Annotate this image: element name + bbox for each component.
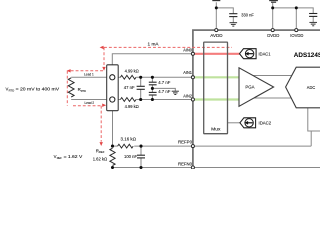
wire lead1 RTD to terminal (71, 76, 107, 78)
svg-text:ADS124S08: ADS124S08 (294, 52, 320, 59)
resistor R1 4.99k zigzag (120, 75, 136, 79)
svg-text:IDAC1: IDAC1 (259, 52, 271, 57)
svg-text:RTD: RTD (9, 88, 15, 92)
wire AIN0 net: AIN0 pin left then down to terminal pin 1 (112, 54, 191, 75)
junction dot IOVDD rail (295, 6, 298, 9)
svg-text:IOVDD: IOVDD (290, 33, 303, 38)
wire C4 100nF leads (140, 146, 142, 155)
resistor R3 3.16k zigzag (118, 144, 134, 148)
svg-text:DVDD: DVDD (267, 33, 279, 38)
pin AIN1 (191, 76, 194, 79)
svg-text:AVDD: AVDD (210, 33, 222, 38)
junction dot AVDD rail (215, 6, 218, 9)
pin IOVDD (295, 29, 298, 32)
junction dot Rref top (111, 145, 114, 148)
wire ADC output down (308, 108, 320, 131)
wire internal to REFP0 (310, 131, 312, 146)
red dashed loop around RTD leads (67, 71, 104, 106)
wire R2 to AIN2 pin (136, 99, 191, 101)
svg-text:REF: REF (99, 150, 105, 154)
svg-text:AIN0: AIN0 (183, 48, 192, 53)
junction dot C4 bottom (139, 166, 142, 169)
capacitor C2 4.7nF plates (149, 82, 157, 85)
wire PGA output to ADC (top) (246, 75, 294, 77)
svg-text:1 mA: 1 mA (148, 42, 159, 47)
wire lead2 RTD to terminal (71, 99, 107, 101)
pin AIN0 (191, 52, 194, 55)
wire terminal pin1 to R1 (115, 76, 120, 78)
ground symbol mid filter (172, 91, 179, 94)
supply rail cut marks top DVDD (269, 1, 278, 3)
red dashed current path 1 mA from IDAC1 (104, 47, 232, 67)
red arrow down to Rref (100, 142, 103, 146)
ground symbol below C6 (309, 22, 317, 25)
junction dot Rref bottom (111, 166, 114, 169)
svg-text:1.62 kΩ: 1.62 kΩ (93, 156, 108, 161)
IDAC1 current source symbol (240, 49, 257, 59)
PGA op amp triangle (239, 68, 274, 107)
wire mid node to ground (152, 88, 175, 91)
resistor Rref zigzag vertical (110, 148, 115, 165)
svg-text:47 nF: 47 nF (124, 85, 135, 90)
wire mux to IDAC2 (228, 122, 241, 124)
wire AVDD supply (215, 2, 217, 30)
pin REFP0 (191, 145, 194, 148)
svg-text:Mux: Mux (211, 127, 221, 132)
capacitor C5 330nF plates (229, 14, 237, 17)
svg-text:REF: REF (57, 156, 62, 160)
wire C2 leads (151, 77, 153, 82)
wire C1 leads (140, 77, 142, 86)
capacitor C3 4.7nF plates (149, 92, 157, 95)
pin AVDD (215, 29, 218, 32)
junction dot R1 to C2 (151, 76, 154, 79)
supply rail cut marks top AVDD (212, 0, 220, 2)
terminal block connector (107, 65, 119, 111)
pin REFN0 (191, 166, 194, 169)
capacitor C4 100nF plates (137, 155, 145, 158)
resistor R2 4.99k zigzag (120, 98, 136, 102)
svg-text:4.7 nF: 4.7 nF (158, 80, 171, 85)
svg-text:4.99 kΩ: 4.99 kΩ (125, 104, 139, 109)
svg-text:100 nF: 100 nF (124, 154, 137, 159)
terminal pin 1 circle (110, 75, 115, 80)
pin DVDD (271, 29, 274, 32)
IC body ADS124S08 outline (193, 30, 320, 180)
wire terminal pin2 to R2 (115, 99, 120, 101)
wire PGA output to ADC (bottom) (248, 97, 294, 99)
svg-text:IDAC2: IDAC2 (259, 121, 272, 126)
RTD resistor zigzag (68, 78, 74, 97)
wire REFN0 net (113, 167, 320, 169)
svg-text:= 20 mV to 400 mV: = 20 mV to 400 mV (16, 87, 60, 92)
svg-text:4.99 kΩ: 4.99 kΩ (125, 69, 139, 74)
junction dot C4 top (139, 145, 142, 148)
svg-text:REFN0: REFN0 (178, 162, 193, 167)
wire R1 to AIN1 pin (136, 76, 191, 78)
green highlighted net AIN1 to PGA (194, 76, 239, 78)
svg-text:Lead 1: Lead 1 (84, 72, 94, 76)
red arrow right at RTD bottom lead2 (102, 104, 106, 107)
capacitor C1 47nF plates (137, 86, 145, 89)
wire DVDD IOVDD supply (272, 3, 274, 30)
svg-text:AIN2: AIN2 (183, 94, 192, 99)
red arrow left at RTD top (67, 69, 71, 72)
svg-text:4.7 nF: 4.7 nF (158, 89, 171, 94)
capacitor C6 plates top right (309, 14, 317, 17)
green highlighted net AIN2 to PGA (194, 98, 239, 100)
wire C3 leads (151, 95, 153, 99)
terminal pin 2 circle (110, 97, 115, 102)
svg-text:RTD: RTD (81, 89, 87, 93)
svg-text:AIN1: AIN1 (183, 70, 192, 75)
junction dot DVDD rail (271, 6, 274, 9)
svg-text:REFP0: REFP0 (178, 140, 193, 145)
junction dot R2 to C1 (139, 98, 142, 101)
ground symbol below C5 (230, 23, 238, 26)
red arrow at 1 mA corner (100, 46, 104, 49)
svg-text:330 nF: 330 nF (241, 12, 254, 17)
svg-text:PGA: PGA (245, 84, 255, 89)
svg-text:ADC: ADC (307, 85, 316, 90)
svg-text:3.16 kΩ: 3.16 kΩ (121, 136, 137, 141)
junction dot R2 to C3 (151, 98, 154, 101)
svg-text:Lead 2: Lead 2 (84, 101, 94, 105)
junction dot R1 to C1 (139, 76, 142, 79)
IDAC2 current source symbol (240, 118, 256, 128)
mux block (204, 42, 228, 134)
pin AIN2 (191, 98, 194, 101)
red dashed down to Rref (100, 106, 102, 142)
red highlighted net AIN0 to IDAC1 (194, 53, 240, 55)
svg-text:= 1.62 V: = 1.62 V (64, 154, 83, 159)
wire terminal pin2 down to Rref node (112, 102, 114, 146)
wire REFP0 net (113, 145, 118, 147)
junction dot mid node C2 C3 (151, 87, 154, 90)
red arrow down to Lead 1 (102, 67, 105, 71)
ADC block hexagon (286, 67, 320, 108)
